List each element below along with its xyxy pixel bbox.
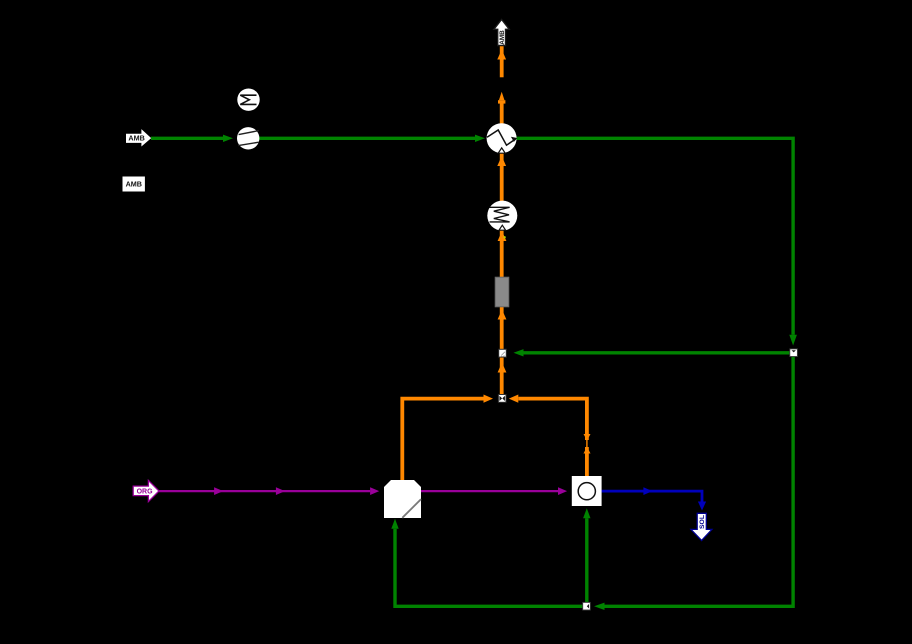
yellow status dot [503,236,505,238]
wire orange stream S6b column below cut [500,101,504,395]
arrow orange left into mixer M1 [509,395,519,403]
wire purple stream S9 ORG feed [159,490,370,492]
svg-text:SOL: SOL [699,515,706,529]
arrow purple right x379 [370,487,379,495]
wire green stream S5 node up to pump unit [585,518,588,602]
label AMB energy [123,177,145,192]
fan B1 circle with chords [237,127,259,149]
wire orange stream S8b thin joint [586,439,588,448]
wire green stream S3 down right side and bottom [605,357,794,607]
mixer M2 small square [499,349,507,357]
input arrow AMB [126,129,151,146]
reactor R1 vessel with chamfered corners [384,480,421,518]
electric heater E2 circle with coil [487,201,517,231]
wire green stream S1a AMB in to fan [151,137,224,140]
arrow purple right x567 [558,487,567,495]
mixer M1 small square with bowtie [498,395,506,403]
wire green stream S1c HX right and down to node N1 [516,138,793,334]
arrow orange right into mixer M1 [484,395,494,403]
svg-text:AMB: AMB [499,30,506,45]
arrow orange up below outlet [497,50,506,60]
arrow green left into node N2 [594,603,604,610]
arrow green right x485 [475,135,485,142]
svg-text:AMB: AMB [128,134,144,143]
arrow orange up below HX [497,156,506,166]
svg-text:AMB: AMB [126,180,142,189]
arrow purple right x223 [214,487,223,495]
arrow orange up mid pump stream [584,447,591,454]
arrow green right x233 [223,135,233,142]
arrow green down above node N1 [789,335,797,346]
wire blue stream S11 to SOL outlet [602,491,702,501]
arrow green left into mixer M2 [514,349,524,356]
splitter N2 small square [583,602,591,610]
arrow blue down above SOL [698,502,706,511]
wire orange stream S8c corner to mixer M1 [518,399,587,440]
wire orange stream S8a from pump unit top up [585,447,589,476]
arrow orange up below heater [498,231,507,241]
pump unit U2 square with circle [572,476,602,506]
arrow green up into pump unit [583,508,590,518]
output arrow AMB top [494,20,509,46]
pipe segment P1 gray rect [495,277,509,307]
svg-text:ORG: ORG [137,489,154,496]
wire orange stream S6a outlet segment [500,46,504,78]
wire green stream S2 recycle to mixer M2 [524,351,790,354]
arrow orange up below mixer M2 [498,363,507,373]
wire green stream S1b fan to HX [238,137,476,140]
wire green stream S4 bottom left to reactor [395,529,583,607]
arrow green up into reactor [391,519,398,529]
arrow orange up at stream cut y92 [499,92,505,101]
heat exchanger E1 circle with zigzag arrow [487,123,518,153]
splitter N1 small square [790,349,798,357]
arrow blue right x652 [643,487,652,495]
output arrow SOL [691,513,712,540]
arrow purple right x285 [276,487,285,495]
input arrow ORG [133,480,159,501]
arrow orange up below pipe [498,310,507,320]
wire orange stream S7 from reactor top to mixer M1 [402,399,483,480]
wire purple stream S10 reactor to pump unit [421,490,558,492]
motor U1 circle with sigma [237,89,259,111]
arrow orange down mid pump stream [584,434,591,441]
